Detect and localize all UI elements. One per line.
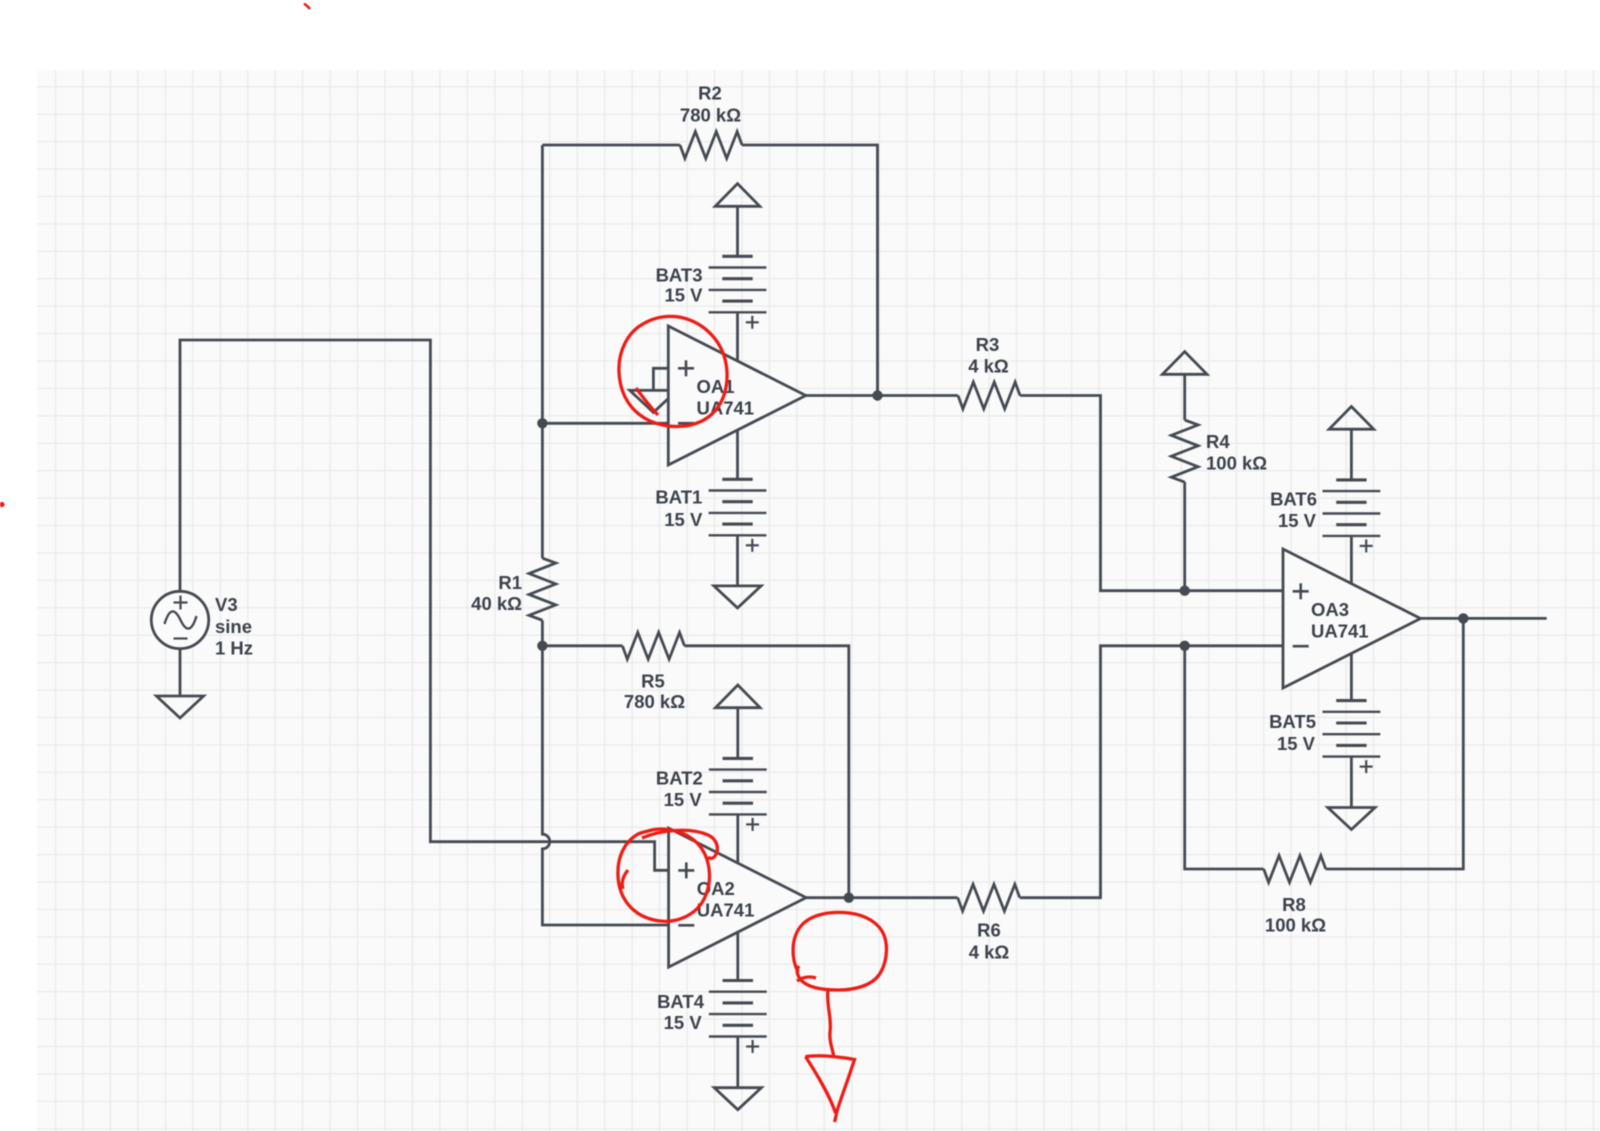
wire R5 run from node to OA2 output xyxy=(542,644,622,647)
wire arrow to R4 top xyxy=(1183,374,1186,420)
svg-text:BAT2: BAT2 xyxy=(656,768,703,789)
svg-text:R3: R3 xyxy=(976,334,1000,355)
svg-text:40 kΩ: 40 kΩ xyxy=(471,593,522,614)
wire OA3 output xyxy=(1421,617,1547,620)
svg-text:4 kΩ: 4 kΩ xyxy=(969,942,1010,963)
svg-text:UA741: UA741 xyxy=(697,398,755,419)
wire V3 bottom to ground xyxy=(179,649,182,696)
battery BAT2 15 V xyxy=(723,757,753,760)
svg-text:100 kΩ: 100 kΩ xyxy=(1206,453,1267,474)
svg-text:780 kΩ: 780 kΩ xyxy=(624,691,685,712)
svg-text:R2: R2 xyxy=(698,83,722,104)
battery BAT1 15 V xyxy=(722,478,752,481)
resistor R5 780 kOhm xyxy=(622,632,684,659)
ground below BAT1 xyxy=(714,586,761,608)
wire BAT6 to OA3 positive supply pin xyxy=(1350,536,1353,584)
svg-text:R8: R8 xyxy=(1282,894,1306,915)
wire R2 left branch down to OA1 inverting input (node at x=542) xyxy=(541,145,544,558)
wire BAT5 to ground xyxy=(1350,757,1353,808)
red pen dot at left edge xyxy=(0,502,5,507)
wire arrow to BAT6 xyxy=(1350,429,1353,480)
svg-text:4 kΩ: 4 kΩ xyxy=(968,356,1009,377)
junction node R4 / OA3 plus xyxy=(1180,586,1190,596)
wire R2 top run xyxy=(542,144,680,147)
wire R3 to OA3 non-inverting input xyxy=(1020,396,1283,591)
wire R2 right to OA1 output node xyxy=(742,145,878,396)
wire step from ground to OA1 plus input xyxy=(653,368,668,390)
wire OA3 negative supply pin to BAT5 xyxy=(1350,653,1353,701)
wire BAT3 to OA1 positive supply pin xyxy=(736,312,739,361)
svg-text:15 V: 15 V xyxy=(664,1012,703,1033)
wire OA1 negative supply pin to BAT1 xyxy=(736,431,739,480)
op-amp OA3 UA741 xyxy=(1283,549,1421,688)
power arrow above BAT6 xyxy=(1329,407,1374,430)
battery BAT4 15 V xyxy=(723,979,753,982)
svg-text:15 V: 15 V xyxy=(664,509,703,530)
svg-text:BAT6: BAT6 xyxy=(1270,489,1317,510)
junction node R8 / OA3 minus xyxy=(1180,641,1190,651)
svg-text:sine: sine xyxy=(215,616,252,637)
resistor R3 4 kOhm xyxy=(958,382,1020,409)
svg-text:OA1: OA1 xyxy=(697,376,735,397)
svg-text:100 kΩ: 100 kΩ xyxy=(1265,915,1326,936)
wire BAT1 to ground xyxy=(736,535,739,586)
junction node OA1 output / R2 / R3 xyxy=(872,390,882,400)
svg-text:UA741: UA741 xyxy=(1311,621,1369,642)
svg-text:780 kΩ: 780 kΩ xyxy=(680,105,741,126)
ground at OA1 plus input xyxy=(630,390,677,412)
wire BAT2 to OA2 positive supply pin xyxy=(736,814,739,863)
wire OA1 inverting input xyxy=(542,422,668,425)
wire arrow to BAT3 xyxy=(736,206,739,256)
wire R6 to OA3 inverting input xyxy=(1020,646,1283,898)
resistor R2 780 kOhm xyxy=(680,132,742,159)
voltage source V3 sine 1 Hz xyxy=(151,591,208,648)
svg-text:R4: R4 xyxy=(1206,431,1230,452)
svg-text:OA3: OA3 xyxy=(1311,599,1349,620)
resistor R6 4 kOhm xyxy=(958,884,1020,911)
svg-text:R6: R6 xyxy=(977,920,1001,941)
battery BAT6 15 V xyxy=(1336,478,1366,481)
power arrow above R4 xyxy=(1162,352,1207,375)
wire arrow to BAT2 xyxy=(736,708,739,759)
red pen arrow head xyxy=(806,1056,855,1122)
wire R4 bottom to node on OA3 plus line xyxy=(1183,482,1186,591)
wire OA2 output to R6 xyxy=(806,896,958,899)
wire R1 bottom to node, down with hop over horizontal wire, to OA2 inverting input xyxy=(541,620,544,646)
svg-text:BAT4: BAT4 xyxy=(657,991,705,1012)
junction node OA3 output / R8 xyxy=(1458,613,1468,623)
wire OA2 negative supply pin to BAT4 xyxy=(736,933,739,981)
red pen arrow stem xyxy=(828,990,834,1056)
resistor R4 100 kOhm (vertical) xyxy=(1171,420,1198,482)
svg-text:BAT5: BAT5 xyxy=(1269,711,1316,732)
svg-text:1 Hz: 1 Hz xyxy=(215,638,253,659)
svg-text:BAT1: BAT1 xyxy=(655,487,702,508)
junction node OA1 inverting / R1 / R2 xyxy=(537,418,547,428)
op-amp OA2 UA741 xyxy=(669,828,807,967)
battery BAT3 15 V xyxy=(722,255,752,258)
resistor R8 100 kOhm xyxy=(1264,856,1326,883)
op-amp OA1 UA741 xyxy=(668,326,806,465)
svg-text:15 V: 15 V xyxy=(664,789,703,810)
power arrow above BAT2 xyxy=(716,685,761,708)
red pen circle around OA2 plus input xyxy=(618,829,710,921)
ground for V3 xyxy=(156,696,203,718)
ground below BAT4 xyxy=(714,1088,761,1110)
wire R8 right up to OA3 output node xyxy=(1326,618,1464,869)
wire BAT4 to ground xyxy=(736,1037,739,1088)
ground below BAT5 xyxy=(1328,808,1375,830)
resistor R1 40 kOhm (vertical) xyxy=(529,558,556,620)
svg-text:15 V: 15 V xyxy=(1278,510,1317,531)
wire R5 right, down to OA2 output node xyxy=(684,646,848,898)
svg-text:15 V: 15 V xyxy=(1277,733,1316,754)
red pen tick at top xyxy=(304,4,310,10)
svg-text:OA2: OA2 xyxy=(697,878,735,899)
svg-text:R1: R1 xyxy=(498,572,522,593)
svg-text:R5: R5 xyxy=(641,671,665,692)
junction node OA2 output / R5 / R6 xyxy=(844,893,854,903)
svg-text:15 V: 15 V xyxy=(664,285,703,306)
junction node R1 / R5 / OA2 inverting xyxy=(537,641,547,651)
red pen circle around OA1 plus input xyxy=(619,316,727,426)
svg-text:BAT3: BAT3 xyxy=(656,264,703,285)
wire R8 branch from OA3 minus node down xyxy=(1185,646,1264,869)
wire OA1 output to R3 xyxy=(806,394,958,397)
red pen scribble blob xyxy=(793,912,886,990)
svg-text:V3: V3 xyxy=(215,594,238,615)
wire V3 top loop to OA2 plus input xyxy=(180,340,669,870)
power arrow above BAT3 xyxy=(715,184,760,207)
battery BAT5 15 V xyxy=(1336,699,1366,702)
svg-text:UA741: UA741 xyxy=(697,900,755,921)
